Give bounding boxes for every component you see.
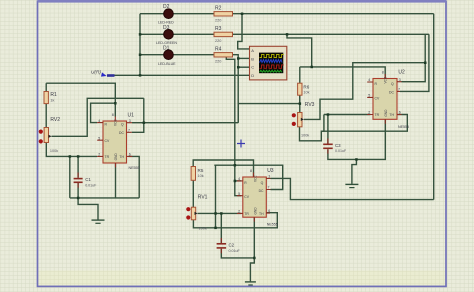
wire scope B tap xyxy=(238,57,250,59)
svg-text:D1: D1 xyxy=(163,46,170,52)
svg-text:8: 8 xyxy=(250,169,252,173)
svg-text:LED-GREEN: LED-GREEN xyxy=(156,41,177,45)
wire U(R) probe line to scope D xyxy=(114,74,250,76)
potentiometer RV2 xyxy=(39,117,61,153)
wire R5 bottom to RV1 top xyxy=(192,180,194,207)
wire C3 bottom to U2 gnd xyxy=(328,119,385,159)
wire R1 to RV2 link xyxy=(45,104,47,128)
node marker blue cross xyxy=(237,140,245,148)
LED D1 xyxy=(158,46,176,66)
wire R4 right to scope riser xyxy=(231,55,238,123)
555 timer U1 xyxy=(97,113,139,170)
svg-text:Q: Q xyxy=(391,82,394,86)
svg-text:6: 6 xyxy=(399,111,401,115)
node U3 ground junction xyxy=(253,257,256,260)
LED D2 xyxy=(158,4,174,24)
node R6 top line junction xyxy=(311,66,314,69)
node C2 top junction xyxy=(220,212,223,215)
svg-text:CV: CV xyxy=(375,97,380,101)
svg-text:0.01uF: 0.01uF xyxy=(335,149,347,153)
node C3 top junction xyxy=(327,113,330,116)
wire U3 ground jog xyxy=(250,258,254,282)
node U2 output feedback junction xyxy=(424,62,427,65)
capacitor C3 xyxy=(323,139,347,154)
svg-text:220: 220 xyxy=(215,19,221,23)
node line-B / step junction xyxy=(234,164,237,167)
svg-text:R4: R4 xyxy=(215,46,222,52)
svg-text:U(R): U(R) xyxy=(91,69,101,74)
node U1 TR line left junction xyxy=(69,155,72,158)
svg-text:GND: GND xyxy=(254,207,258,215)
resistor R2 xyxy=(214,5,233,22)
svg-text:8: 8 xyxy=(112,113,114,117)
svg-text:1k: 1k xyxy=(50,99,54,103)
wire U2 ground branch xyxy=(352,159,357,184)
wire R5 top line A to U3 pin8 xyxy=(193,160,253,177)
wire line B RV1 wiper net xyxy=(214,165,282,189)
svg-text:R2: R2 xyxy=(215,5,222,11)
wire U2 output riser xyxy=(402,34,426,81)
svg-text:A: A xyxy=(251,48,254,53)
wire U1 pin4 loop xyxy=(91,103,116,122)
wire RV1 wiper riser xyxy=(215,165,217,228)
svg-text:10k: 10k xyxy=(303,90,309,94)
svg-text:NE555: NE555 xyxy=(129,166,140,170)
svg-text:3: 3 xyxy=(129,119,131,123)
wire D3 to R3 row xyxy=(140,33,214,35)
svg-text:LED-BLUE: LED-BLUE xyxy=(158,62,176,66)
svg-text:D3: D3 xyxy=(163,25,170,31)
555 timer U3 xyxy=(237,168,278,226)
svg-text:D2: D2 xyxy=(163,4,170,10)
capacitor C2 xyxy=(217,238,241,253)
wire RV2 bottom to U1 TR xyxy=(46,143,97,157)
ground (U1) xyxy=(92,220,105,223)
wire U1 pin6 loop xyxy=(128,156,139,198)
svg-text:3: 3 xyxy=(399,78,401,82)
wire R6 top lead xyxy=(299,67,301,83)
svg-text:TR: TR xyxy=(244,212,249,216)
node RV1 wiper riser junction xyxy=(214,212,217,215)
wire C1 bottom lead xyxy=(77,183,79,198)
svg-text:R1: R1 xyxy=(50,92,57,98)
resistor R4 xyxy=(214,46,233,63)
wire red net bottom run to U3 output xyxy=(271,178,434,199)
wire C1 branch left down xyxy=(69,156,71,198)
wire C3 top branch xyxy=(327,115,329,144)
wire U1 ground branch xyxy=(78,198,98,220)
wire U1 Q to DC drop xyxy=(132,98,144,132)
wire LED anode bus vertical xyxy=(139,14,141,76)
wire red net right riser down xyxy=(433,14,435,200)
wire RV2 wiper run xyxy=(52,98,144,136)
svg-text:R6: R6 xyxy=(303,84,309,89)
wire U2 under-chip tie line xyxy=(321,115,407,132)
svg-text:R5: R5 xyxy=(198,168,204,173)
oscilloscope xyxy=(250,46,287,80)
pale yellow strip above bottom border xyxy=(38,271,446,287)
svg-text:C1: C1 xyxy=(85,177,91,182)
svg-text:TH: TH xyxy=(119,155,124,159)
svg-text:C3: C3 xyxy=(335,143,341,148)
waveform channel A yellow xyxy=(260,55,284,58)
wire RV1 wiper to U3 TR xyxy=(198,212,242,214)
wire U1 pin1 riser xyxy=(115,163,117,198)
svg-text:R3: R3 xyxy=(215,26,222,32)
wire RV3 bottom to U2 TR net xyxy=(300,115,324,141)
svg-text:DC: DC xyxy=(119,131,124,135)
svg-text:GND: GND xyxy=(114,153,118,161)
svg-text:CV: CV xyxy=(244,195,249,199)
svg-text:2: 2 xyxy=(238,210,240,214)
wire U3 pin4 tap xyxy=(235,180,242,182)
svg-text:DC: DC xyxy=(389,91,394,95)
wire R3 right long run xyxy=(233,33,429,35)
svg-text:RV3: RV3 xyxy=(305,102,315,108)
potentiometer RV1 xyxy=(186,195,207,231)
svg-text:GND: GND xyxy=(384,109,388,117)
ground (U3) xyxy=(245,282,256,285)
svg-text:TH: TH xyxy=(389,113,394,117)
svg-text:4: 4 xyxy=(368,78,370,82)
wire R3 step down to R6 line xyxy=(287,34,312,67)
svg-text:U2: U2 xyxy=(398,69,405,75)
node U3 pin4 junction xyxy=(234,180,237,183)
ground (U2) xyxy=(345,184,358,187)
svg-text:2: 2 xyxy=(98,153,100,157)
svg-text:5: 5 xyxy=(368,94,370,98)
svg-text:0.01uF: 0.01uF xyxy=(85,183,97,187)
waveform channel D green xyxy=(260,70,282,72)
waveform channel B blue xyxy=(260,60,283,63)
node C1 bottom / ground junction xyxy=(77,197,80,200)
svg-text:4: 4 xyxy=(98,119,100,123)
svg-text:CV: CV xyxy=(105,139,110,143)
svg-text:RV1: RV1 xyxy=(198,195,208,201)
LED D3 xyxy=(156,25,177,45)
wire C2 bottom run to U3 gnd xyxy=(221,217,254,258)
wire feedback line to RV3 wiper riser xyxy=(304,63,425,120)
svg-text:U3: U3 xyxy=(267,168,274,174)
node R3 step junction xyxy=(286,33,289,36)
svg-text:RV2: RV2 xyxy=(50,117,60,123)
node C1 top junction xyxy=(77,155,80,158)
svg-text:LED-RED: LED-RED xyxy=(158,21,174,25)
wire RV3 top lead xyxy=(299,83,301,112)
svg-text:C: C xyxy=(251,65,254,70)
node probe line / LED bus junction xyxy=(139,74,142,77)
svg-text:U1: U1 xyxy=(128,113,135,119)
node U3 TH line junction xyxy=(214,227,217,230)
wire U2 TH stub run xyxy=(397,114,401,116)
svg-text:TR: TR xyxy=(105,155,110,159)
svg-text:TR: TR xyxy=(375,113,380,117)
waveform channel C red xyxy=(260,65,284,68)
resistor R6 xyxy=(298,83,310,95)
svg-text:VCC: VCC xyxy=(384,76,388,83)
wire C1 top lead xyxy=(77,156,79,177)
node D3 anode bus junction xyxy=(139,33,142,36)
wire D1 to R4 row xyxy=(140,54,214,56)
svg-text:6: 6 xyxy=(268,209,270,213)
wire U2 TR line xyxy=(324,114,370,116)
wire R1 top to U1 pin8 xyxy=(46,83,115,116)
555 timer U2 xyxy=(367,69,409,128)
node U2 ground junction xyxy=(355,158,358,161)
svg-text:7: 7 xyxy=(398,88,400,92)
svg-text:DC: DC xyxy=(259,189,264,193)
node R2 output junction xyxy=(241,13,244,16)
svg-text:NE555: NE555 xyxy=(398,125,409,129)
svg-text:TH: TH xyxy=(259,212,264,216)
svg-text:10k: 10k xyxy=(198,174,204,178)
svg-text:5: 5 xyxy=(238,192,240,196)
wire U1 bottom gnd bus xyxy=(70,197,139,199)
svg-text:100k: 100k xyxy=(50,149,58,153)
svg-text:4: 4 xyxy=(238,177,240,181)
wire scope C tap xyxy=(238,66,250,68)
capacitor C1 xyxy=(74,173,98,188)
svg-text:7: 7 xyxy=(128,129,130,133)
svg-text:C2: C2 xyxy=(229,243,235,248)
wire U2 DC riser xyxy=(400,34,429,91)
svg-text:B: B xyxy=(251,56,254,61)
wire scope A jog from R2 net xyxy=(238,14,251,49)
wire RV1 bottom to U3 TH xyxy=(193,213,277,228)
svg-text:VCC: VCC xyxy=(253,175,257,182)
svg-text:8: 8 xyxy=(382,70,384,74)
svg-text:0.01uF: 0.01uF xyxy=(229,249,241,253)
node scope C tap junction xyxy=(237,66,240,69)
wire R6 bottom lead xyxy=(299,95,301,103)
svg-text:100k: 100k xyxy=(301,134,309,138)
svg-text:100k: 100k xyxy=(199,227,207,231)
wire R2 right to right-edge riser xyxy=(233,13,434,15)
wire U1 out to R6 bottom node xyxy=(238,104,300,123)
wire D2 to R2 row xyxy=(140,13,214,15)
resistor R1 xyxy=(44,92,57,104)
resistor R3 xyxy=(214,26,233,43)
node R6 bottom / RV3 top junction xyxy=(299,102,302,105)
potentiometer RV3 xyxy=(292,102,315,138)
svg-text:Q: Q xyxy=(121,123,124,127)
svg-text:3: 3 xyxy=(268,175,270,179)
resistor R5 xyxy=(191,167,204,181)
svg-text:VCC: VCC xyxy=(114,119,118,126)
svg-text:D: D xyxy=(251,73,254,78)
node U1 pin4/pin8 junction xyxy=(114,102,117,105)
wire R1 top lead xyxy=(45,83,47,91)
svg-text:2: 2 xyxy=(368,111,370,115)
node U1 output junction xyxy=(143,122,146,125)
wire R6 top line to U2 pin8 xyxy=(300,67,385,79)
wire R4 step long vertical to U3 CV xyxy=(226,56,241,196)
wire U1 output line xyxy=(132,122,238,124)
node scope B tap junction xyxy=(237,57,240,60)
svg-text:Q: Q xyxy=(261,181,264,185)
wire C2 drop xyxy=(220,213,222,243)
svg-text:5: 5 xyxy=(98,136,100,140)
node D1 anode bus junction xyxy=(139,54,142,57)
voltage probe U(R) xyxy=(91,69,115,76)
svg-text:220: 220 xyxy=(215,39,221,43)
svg-text:NE555: NE555 xyxy=(267,222,278,226)
svg-text:6: 6 xyxy=(129,153,131,157)
svg-text:7: 7 xyxy=(268,186,270,190)
svg-text:220: 220 xyxy=(215,60,221,64)
